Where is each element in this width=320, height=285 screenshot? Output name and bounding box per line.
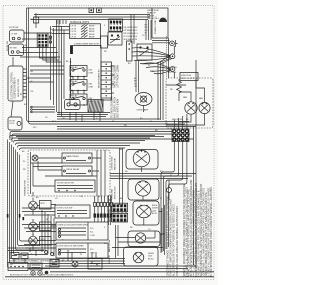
svg-text:BK-RD: BK-RD <box>148 258 154 260</box>
wire P4 feeds <box>109 195 127 225</box>
PCB header bar <box>70 46 73 54</box>
door switch SW1 <box>10 30 25 42</box>
wire mid verticals lower-left <box>42 210 54 256</box>
bake element box <box>128 231 160 247</box>
wire grid drops <box>40 47 62 62</box>
oven control A1 <box>8 66 23 101</box>
legend row 2 <box>71 27 95 30</box>
legend row 3 <box>71 30 95 33</box>
oven control enclosure (dashed) <box>28 150 110 196</box>
wire staircase taps <box>22 208 56 248</box>
bake element HE2 <box>135 233 155 243</box>
svg-text:BK-W: BK-W <box>152 213 157 215</box>
cooling fan enclosure (dashed) <box>166 78 213 128</box>
svg-text:LEFT FRONT 1200W: LEFT FRONT 1200W <box>117 64 120 88</box>
svg-text:LT·SW: LT·SW <box>11 34 17 36</box>
power cord grommet <box>159 18 167 23</box>
note text top-right <box>147 10 160 20</box>
bottom rule upper <box>50 271 214 273</box>
svg-text:BK/W: BK/W <box>89 31 94 33</box>
wire bottom bus <box>28 259 196 269</box>
connector P2 (surface units) <box>109 19 123 31</box>
junction box label <box>180 73 198 81</box>
svg-text:FAN MOTOR: FAN MOTOR <box>114 158 117 170</box>
wire labels stack center <box>134 78 137 88</box>
fan motor M1 <box>185 102 197 114</box>
svg-text:W: W <box>150 121 152 123</box>
wire switch to control <box>12 57 14 66</box>
svg-text:MTR: MTR <box>41 203 46 205</box>
terminal box bottom <box>88 259 102 270</box>
wire rows link <box>95 207 112 223</box>
svg-text:RT·SW: RT·SW <box>10 48 17 50</box>
switch side box 2 <box>127 41 133 61</box>
svg-text:LF 23: LF 23 <box>71 37 77 39</box>
control module box 2 <box>62 166 92 176</box>
control module box 1 <box>62 153 92 163</box>
fuse F1 <box>89 8 94 13</box>
svg-text:N.O.: N.O. <box>90 228 94 230</box>
rotated note column B <box>111 96 120 118</box>
connector P4 lower <box>112 213 128 222</box>
lower element box <box>124 247 159 266</box>
svg-text:BROIL 3600W: BROIL 3600W <box>109 209 111 222</box>
convection motor M3 <box>133 150 150 172</box>
svg-text:BAKE RELAY: BAKE RELAY <box>67 155 80 158</box>
svg-text:LINE: LINE <box>89 72 94 74</box>
svg-text:W-6 SEE NOTE: W-6 SEE NOTE <box>124 39 138 41</box>
wire enclosure internals <box>31 150 106 196</box>
bottom part number row <box>9 259 73 276</box>
svg-text:FOR WIRE COLOR CODE AND TERMIN: FOR WIRE COLOR CODE AND TERMINAL IDENTIF… <box>176 206 179 276</box>
fan motor M2 <box>199 102 210 113</box>
pin stubs A1 <box>23 69 27 97</box>
svg-text:BU: BU <box>145 27 148 29</box>
component probe top-left <box>34 13 39 28</box>
door switch SW2 <box>9 44 24 56</box>
terminal N <box>170 40 178 47</box>
thermostat TH1 <box>167 180 172 200</box>
wire bus left elbows down <box>10 132 14 143</box>
terminal strip TB1 <box>101 62 114 100</box>
wire relay interlinks <box>73 77 84 95</box>
svg-text:BK/W: BK/W <box>89 28 94 30</box>
svg-text:RR 2350W BU-1: RR 2350W BU-1 <box>124 33 138 35</box>
wire element links <box>112 205 165 258</box>
wire switch outputs <box>20 33 60 57</box>
svg-text:ELECTRONIC CONTROL: ELECTRONIC CONTROL <box>10 71 13 99</box>
fuse F2 <box>97 8 102 13</box>
interlock legend box C <box>56 243 108 258</box>
interlock circle <box>72 261 78 267</box>
svg-text:DOOR SW: DOOR SW <box>9 27 18 29</box>
svg-text:W: W <box>148 65 150 67</box>
wire color labels stack <box>145 25 149 35</box>
fan labels <box>172 96 203 121</box>
svg-text:BK/W: BK/W <box>89 37 94 39</box>
legend row 1 <box>71 25 95 28</box>
wire top harness L1 <box>27 7 153 9</box>
rotated label bottom box <box>109 254 111 264</box>
wire center-left verticals <box>120 148 123 205</box>
svg-text:JUNCTION: JUNCTION <box>181 75 192 77</box>
rotated label bake <box>108 240 111 252</box>
wire main bus left group <box>10 136 156 151</box>
wire hooks mid-left <box>31 106 55 113</box>
svg-text:COM: COM <box>90 253 95 255</box>
rotated label oven fan <box>111 186 117 199</box>
legend row 5 <box>71 35 95 38</box>
oven lamp DS1 <box>135 93 152 113</box>
legend row 4 <box>71 33 95 36</box>
wire main bus mid <box>12 132 194 140</box>
connector grid top-left <box>37 33 52 47</box>
rotated note column A <box>111 64 120 88</box>
wire left bundle <box>8 140 61 269</box>
terminal L1 <box>170 54 175 59</box>
wire right risers <box>158 62 163 120</box>
svg-text:W: W <box>170 175 172 177</box>
dashed sense wire <box>166 36 168 77</box>
relay K4 <box>65 100 81 110</box>
wire fan feeds <box>166 78 205 102</box>
svg-text:W: W <box>23 161 25 163</box>
wire control drop diagonal <box>11 101 13 117</box>
switch side box <box>101 36 108 48</box>
relay K1 <box>70 66 94 78</box>
svg-text:10. DO NOT REMOVE GROUND STRAP: 10. DO NOT REMOVE GROUND STRAPS FROM ANY… <box>210 186 213 277</box>
wire A1 feeds <box>27 66 65 82</box>
wire tick labels left bundle <box>7 214 24 220</box>
wire relay outputs <box>57 112 110 122</box>
wire vertical pair from top <box>27 8 29 36</box>
bottom small box right <box>50 260 59 268</box>
svg-text:LF 23: LF 23 <box>71 28 77 30</box>
svg-text:N.O.: N.O. <box>90 249 94 251</box>
wire fan into L1 <box>132 48 170 64</box>
PCB pin dots <box>70 61 71 92</box>
wire relay risers <box>57 20 65 116</box>
svg-text:MOTORS: MOTORS <box>168 72 177 74</box>
svg-text:LF 1200W RD-4: LF 1200W RD-4 <box>124 36 138 38</box>
wire diagonal taps <box>158 56 172 65</box>
service note column <box>167 196 179 276</box>
connector row R1 <box>94 203 113 207</box>
oven fan motor M4 <box>135 181 150 200</box>
wire neutral drop <box>169 38 175 72</box>
svg-text:FAN: FAN <box>183 96 187 99</box>
resistor R1 <box>177 79 182 95</box>
svg-text:BK/W: BK/W <box>89 26 94 28</box>
svg-text:RD: RD <box>145 30 149 32</box>
terminal L2 <box>170 67 175 72</box>
svg-text:DOOR UNLOCK SWITCHES: DOOR UNLOCK SWITCHES <box>58 245 85 247</box>
svg-text:FAN: FAN <box>199 97 203 100</box>
svg-text:W: W <box>31 81 33 83</box>
svg-text:W-2: W-2 <box>33 127 36 129</box>
wire extra risers <box>51 26 54 105</box>
infinite switch S1 <box>108 32 122 45</box>
svg-text:W: W <box>80 254 82 256</box>
svg-text:CONVECTION: CONVECTION <box>112 156 114 170</box>
connector row R2 <box>94 214 113 218</box>
svg-text:8112P212-60 REV A: 8112P212-60 REV A <box>14 77 17 98</box>
svg-text:DOOR: DOOR <box>9 121 15 123</box>
svg-text:3400W: 3400W <box>148 253 154 255</box>
svg-text:N.C.: N.C. <box>90 232 94 234</box>
label block above enclosure <box>168 67 177 74</box>
svg-text:SEE NOTE 4: SEE NOTE 4 <box>147 18 160 20</box>
wire fan into L2 <box>142 63 170 74</box>
wire color labels scattered <box>22 19 189 262</box>
svg-text:W: W <box>160 198 162 200</box>
svg-text:LF 23: LF 23 <box>71 34 77 36</box>
svg-text:LF 23: LF 23 <box>71 31 77 33</box>
svg-text:4 WIRE/3 WIRE SEE NOTE: 4 WIRE/3 WIRE SEE NOTE <box>74 44 100 46</box>
legend box <box>70 24 101 39</box>
wire right boundary <box>194 60 197 268</box>
svg-text:OVEN LAMP: OVEN LAMP <box>137 109 149 112</box>
svg-text:FAN: FAN <box>168 69 172 72</box>
wire top harness bus <box>31 15 150 20</box>
wire legend drops <box>57 20 66 24</box>
lower motor box <box>128 179 159 200</box>
latch motor ML1 <box>29 198 51 215</box>
wire legend feeds <box>52 27 70 34</box>
bottom extra cluster <box>8 248 54 263</box>
wire center band <box>110 174 196 179</box>
relay K2 <box>70 80 94 92</box>
svg-text:W: W <box>50 29 52 31</box>
svg-text:DOOR LOCK SW: DOOR LOCK SW <box>57 207 73 209</box>
svg-text:BROIL RELAY: BROIL RELAY <box>67 168 81 171</box>
svg-text:BK/W: BK/W <box>89 34 94 36</box>
broil box text <box>152 205 158 215</box>
wire main bus upper <box>29 119 196 129</box>
convection motor box <box>126 150 158 170</box>
wire fan bottoms <box>166 114 205 125</box>
svg-text:DOOR SW: DOOR SW <box>7 41 9 51</box>
svg-text:THERMAL FUSE: THERMAL FUSE <box>24 179 27 196</box>
svg-text:A1: A1 <box>19 93 22 95</box>
connector J2 hatch <box>88 100 103 113</box>
svg-text:SEE NOTE: SEE NOTE <box>172 119 183 121</box>
svg-text:LF 23: LF 23 <box>71 26 77 28</box>
switch legend box A <box>55 205 90 218</box>
connector P3 <box>172 129 189 142</box>
wire legend feed columns <box>95 196 112 203</box>
svg-text:ELEMENT: ELEMENT <box>109 254 111 264</box>
door lock relay <box>8 117 22 130</box>
door switch labels <box>9 27 28 52</box>
svg-text:W: W <box>46 219 48 221</box>
rotated label conv <box>112 156 117 170</box>
latch motor ML3 <box>29 234 51 250</box>
svg-text:LOCK: LOCK <box>9 123 15 125</box>
wire P3 pigtails <box>174 114 187 152</box>
infinite switch S2 <box>137 44 152 60</box>
control module box 3 <box>55 180 95 192</box>
wire right harness down <box>161 152 187 253</box>
broil element HE1 <box>137 205 152 225</box>
interlock legend box B <box>56 222 108 240</box>
svg-text:BK-1: BK-1 <box>52 121 56 123</box>
wire cord leads <box>152 41 170 43</box>
rotated label broil <box>109 209 111 222</box>
broil element box <box>133 201 159 225</box>
svg-text:BK W R BU GY OR Y V BR PK T —: BK W R BU GY OR Y V BR PK T — WIRE COLOR… <box>10 274 73 277</box>
svg-text:DOOR LATCH SW: DOOR LATCH SW <box>57 181 74 184</box>
svg-text:RELAY: RELAY <box>71 66 78 69</box>
svg-text:LINE: LINE <box>89 86 94 88</box>
wire latch links <box>33 192 56 241</box>
svg-text:RELAY: RELAY <box>71 80 78 83</box>
pilot circle <box>32 155 38 161</box>
svg-text:8112P212-60 WIRING SCHEMATIC 2: 8112P212-60 WIRING SCHEMATIC 240V 60HZ 3… <box>9 259 53 262</box>
surface unit spec rows <box>124 27 139 41</box>
svg-text:W: W <box>145 33 147 35</box>
wire enclosure feeds top <box>169 72 175 78</box>
svg-text:BAKE 2500W: BAKE 2500W <box>108 240 111 252</box>
page border (dotted) <box>3 6 214 280</box>
svg-text:RELAY: RELAY <box>71 95 78 98</box>
svg-text:MOTOR 120V: MOTOR 120V <box>115 186 117 199</box>
svg-text:3600W: 3600W <box>152 208 158 210</box>
wire control risers <box>27 34 32 124</box>
wire switch verticals <box>131 14 151 44</box>
lower element HE3 <box>133 252 144 263</box>
svg-text:SEE NOTE 3 ABV: SEE NOTE 3 ABV <box>117 98 120 118</box>
wire bottom risers <box>68 250 96 261</box>
relay K3 <box>70 94 94 106</box>
svg-text:BROIL: BROIL <box>152 205 157 207</box>
svg-text:OVEN DOOR LATCH SWITCHES: OVEN DOOR LATCH SWITCHES <box>58 223 89 226</box>
bottom-left block <box>8 263 28 271</box>
power cord box <box>152 8 168 38</box>
element notes <box>148 253 154 260</box>
bottom rings <box>31 271 49 275</box>
bottom-left block 2 <box>30 263 42 270</box>
svg-text:RELAY BOARD 8V: RELAY BOARD 8V <box>98 69 101 88</box>
relay PCB outline <box>71 46 102 99</box>
svg-text:POWER CORD: POWER CORD <box>155 19 157 34</box>
latch motor ML2 <box>29 219 51 236</box>
wire lamp feed <box>136 60 139 93</box>
bottom rule lower <box>5 276 214 278</box>
svg-text:VIEW FROM: VIEW FROM <box>147 10 159 12</box>
notes text block <box>183 179 213 277</box>
connector P4 upper <box>112 203 128 212</box>
svg-text:COM: COM <box>90 235 95 237</box>
